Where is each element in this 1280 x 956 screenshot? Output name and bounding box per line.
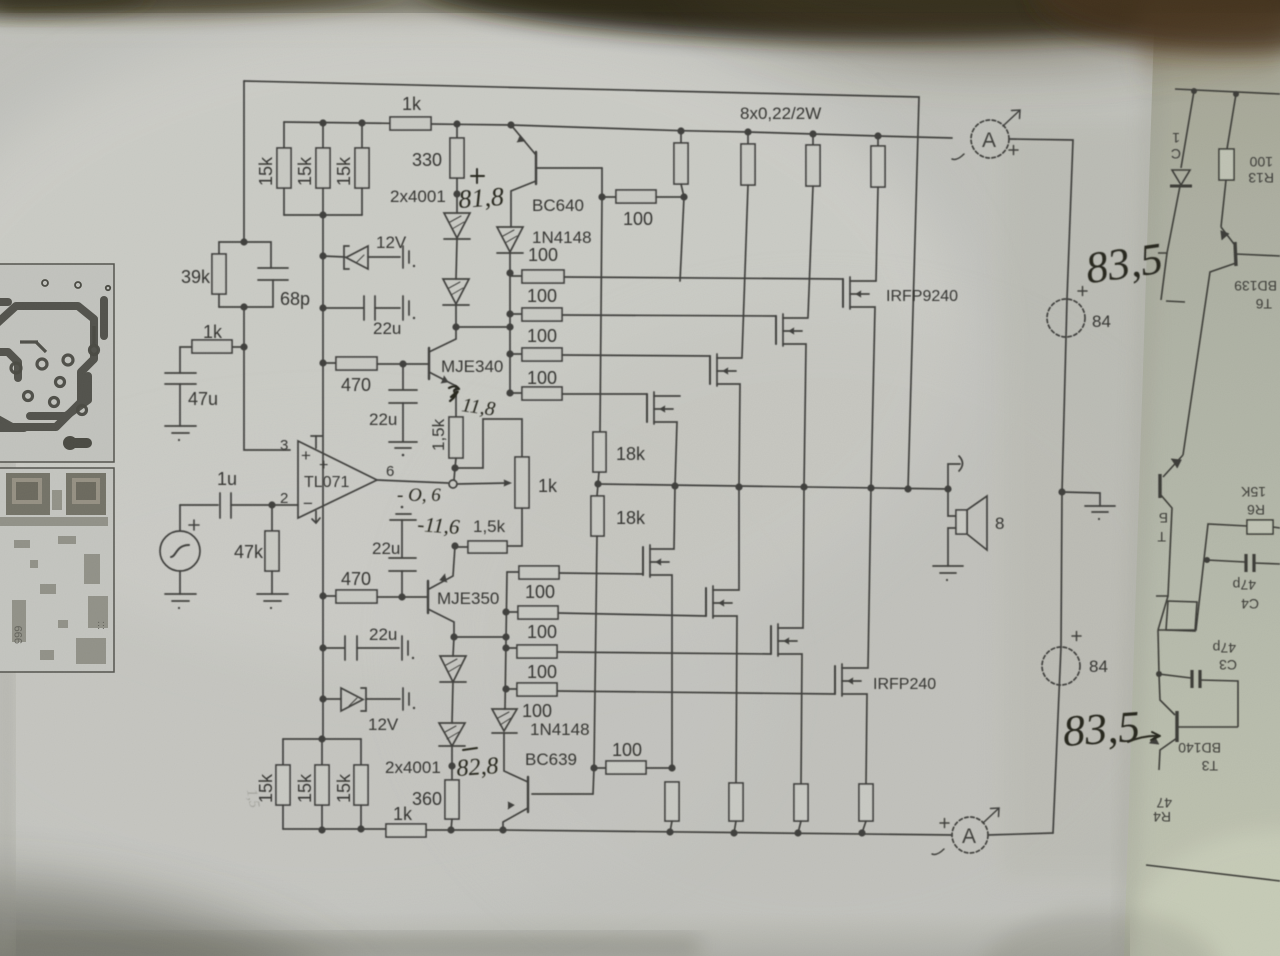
sheet2 label C3 (1212, 640, 1237, 673)
node ladder a2 (506, 310, 513, 317)
resistor 15k b3 (360, 739, 362, 765)
resistor 1.5k v (449, 417, 463, 458)
diode D1b (452, 682, 453, 723)
handwritten 83,5 bottom (1061, 702, 1141, 756)
node rail r2t (744, 128, 751, 135)
ammeter A2 (952, 817, 988, 853)
node ladder a top (506, 269, 513, 276)
scribble MJE340 emitter (449, 386, 459, 401)
diode D2b (451, 746, 453, 766)
resistor 100 b4 (506, 688, 517, 690)
node bus fb (904, 485, 911, 492)
node ladder b2 (502, 633, 509, 640)
ground 47k (257, 593, 288, 595)
wire to pin3 (244, 347, 290, 450)
source 84 top plus (1078, 287, 1087, 296)
node rail r2b (730, 829, 737, 836)
output bus (598, 484, 948, 489)
resistor 0.22 t1 (680, 131, 682, 143)
rail left bias (322, 215, 324, 363)
speaker 8ohm (948, 489, 956, 516)
resistor 15k b1 (282, 739, 284, 765)
resistor 0.22 t4 (877, 136, 879, 146)
resistor 0.22 b2 (729, 783, 743, 821)
sheet2 wire to R6 (1158, 524, 1247, 630)
node 2x4001 top (453, 190, 460, 197)
node MJE350 base (398, 593, 405, 600)
diode 1N4148 a (497, 227, 523, 252)
rail V+ top (284, 122, 952, 138)
node 15k b top (318, 735, 325, 742)
capacitor 22u c chain (401, 506, 404, 509)
rail ladder a (509, 273, 511, 393)
potentiometer 1k (515, 457, 529, 508)
wire pin2 (272, 504, 298, 506)
wire pin6 (377, 480, 448, 483)
terminal cap 12V a (402, 246, 404, 268)
node ladder b1 (502, 608, 509, 615)
capacitor 22u b chain (402, 364, 404, 389)
base wire MJE350 (402, 596, 428, 598)
zener 12V a (323, 256, 345, 257)
resistor 18k 2 (597, 484, 598, 496)
resistor 330 (456, 124, 458, 138)
wire 15k b top bus (283, 738, 361, 740)
node 15k a3 top (358, 119, 365, 126)
ground 47u (165, 425, 196, 427)
node 100b0 right (668, 764, 675, 771)
sheet2 resistor R6 (1247, 520, 1273, 534)
resistor 0.22 b3 (794, 784, 808, 821)
resistor 0.22 t3 (812, 134, 814, 145)
resistor 100 a1 (510, 275, 522, 277)
wire pot bottom (507, 508, 522, 546)
transistor MJE350 (427, 581, 429, 613)
node 22u d (319, 644, 326, 651)
source V1 plus (189, 520, 199, 530)
node rail r1t (677, 127, 684, 134)
node gnd tap (1058, 488, 1065, 495)
node B (451, 542, 458, 549)
node ladder a5 (506, 389, 513, 396)
rail left bias lower (322, 363, 324, 739)
sheet2 bottom line (1146, 865, 1280, 881)
resistor 1k top (390, 117, 431, 130)
node rail r4b (858, 829, 865, 836)
wire gnd tap (1062, 492, 1100, 506)
resistor 360 (451, 766, 453, 780)
rail mid vertical (600, 168, 602, 432)
source 84 top (1047, 299, 1085, 337)
node 12V b (319, 695, 326, 702)
resistor 0.22 t2 (747, 132, 749, 144)
wire 39k-68p bottom (219, 306, 273, 308)
overbar 82,8 (463, 748, 477, 750)
ground speaker (933, 565, 963, 567)
rail V- bottom (503, 830, 952, 835)
wire source-gnd (179, 571, 181, 594)
node bc639 base rail (590, 764, 597, 771)
resistor 15k a2 (322, 123, 324, 148)
emitter arrow MJE350 (440, 574, 447, 582)
ammeter A1 (971, 120, 1009, 158)
resistor 1.5k h (468, 541, 507, 553)
node 100a0 right (680, 193, 687, 200)
resistor 39k (219, 242, 244, 254)
sheet2 node C4 (1204, 557, 1210, 563)
ground V1 (165, 593, 196, 595)
resistor 15k a3 (361, 123, 363, 148)
node bus q3 (735, 483, 742, 490)
node F3 (240, 343, 247, 350)
node bus spk (944, 485, 951, 492)
node bus q4 (671, 482, 678, 489)
zener 12V b (323, 698, 341, 700)
capacitor 68p (244, 242, 271, 268)
mosfet Q4 (647, 392, 680, 486)
wire node A to pot top (455, 419, 522, 468)
node BC640 emitter (507, 121, 514, 128)
mosfet Q2 (776, 314, 808, 487)
node ladder b3 (502, 644, 509, 651)
sheet2 label R4 (1153, 795, 1172, 825)
wiper arrow (457, 483, 508, 484)
resistor 100 a0 (602, 196, 616, 198)
node 100a0 left (598, 193, 605, 200)
resistor 470 a (323, 362, 336, 364)
sheet2 stub wire (1166, 301, 1185, 302)
capacitor 1u (180, 504, 218, 506)
speaker connector hook (948, 464, 960, 489)
capacitor 22u d (323, 647, 344, 649)
resistor 0.22 b4 (859, 784, 873, 821)
resistor 100 a4 (510, 392, 522, 394)
node ladder a4 (506, 350, 513, 357)
resistor 18k 1 (593, 432, 606, 472)
node F1 (240, 238, 247, 245)
node MJE350 coll (450, 633, 457, 640)
second sheet on right (1124, 0, 1280, 956)
node output mid (594, 480, 601, 487)
mosfet Q1 irfp9240 (843, 277, 876, 488)
wire 15k a bottom bus (284, 214, 362, 216)
capacitor 22u a (323, 307, 363, 309)
handwritten 81,8 (457, 182, 504, 214)
terminal cap 12V b (402, 688, 404, 710)
sheet2 label T5 (1157, 510, 1168, 545)
node bus q2 (800, 483, 807, 490)
mosfet Q3 (710, 354, 742, 487)
sheet2 label C1 (1171, 130, 1181, 162)
wire feedback top (244, 81, 919, 489)
handwritten arrow to BD140 (1128, 732, 1160, 742)
node ladder b4 (502, 685, 509, 692)
emitter wire MJE350 (429, 546, 455, 589)
sheet2 label BD139 (1234, 278, 1277, 312)
sheet2 label C4 (1232, 577, 1259, 612)
node ladder a3 (506, 323, 513, 330)
PCB photo 1 (left, upper) (0, 264, 114, 462)
wire feedback left (243, 81, 245, 242)
node MJE340 base (399, 360, 406, 367)
node MJE340 coll (452, 323, 459, 330)
pin7 stub (315, 436, 317, 448)
handwritten -0,6 (397, 485, 441, 506)
node 360 bot (447, 826, 454, 833)
terminal cap 22u d (401, 636, 403, 660)
node 470 b (319, 592, 326, 599)
sheet2 top wire (1175, 89, 1280, 94)
node 15k b2 bot (318, 826, 325, 833)
node rail r3t (809, 130, 816, 137)
node 15k a2 top (319, 119, 326, 126)
resistor 47k (271, 505, 273, 531)
sheet2 resistor R13 (1227, 94, 1236, 149)
terminal cap 22u a (402, 296, 404, 320)
node 2x4001 bot (448, 762, 455, 769)
handwritten plus top (471, 169, 484, 183)
sheet2 label R6 (1240, 484, 1266, 518)
sheet2 transistor BD139 (1221, 227, 1234, 244)
emitter wire MJE340 (455, 386, 457, 417)
sheet2 resistor R5 (1166, 601, 1197, 631)
node bus q1 (867, 484, 874, 491)
node rail r4t (874, 132, 881, 139)
diode D2 (456, 239, 457, 279)
node F2 (240, 303, 247, 310)
handwritten 82,8 (456, 753, 500, 782)
node rail r3b (794, 829, 801, 836)
node IN (268, 501, 275, 508)
A1 plus (1009, 146, 1018, 155)
resistor 15k b2 (321, 739, 323, 765)
diode D1 (456, 194, 458, 213)
bottom shadows (0, 885, 380, 956)
wire D2 to node (455, 305, 457, 327)
node 15k a bus (319, 211, 326, 218)
node 330 top (453, 120, 460, 127)
main schematic (160, 81, 1115, 854)
handwriting (243, 169, 1166, 810)
sheet2 label BD140 (1178, 740, 1221, 774)
resistor 15k a1 (283, 122, 285, 148)
capacitor 47u (165, 372, 196, 374)
resistor 100 b2 (506, 611, 518, 613)
sheet2 capacitor C4 (1207, 560, 1245, 562)
pin4 stub (315, 511, 317, 522)
wire MJE350 coll to diode (453, 637, 454, 656)
mosfet Q8 irfp240 (835, 488, 871, 784)
resistor 1k feedback (232, 346, 244, 348)
source 84 bottom (1042, 647, 1080, 685)
A2 plus (940, 819, 949, 828)
sheet2 diode C1 (1181, 91, 1194, 168)
node BC639 emitter (499, 826, 506, 833)
mosfet Q5 (643, 486, 675, 768)
resistor 100 b0 (594, 767, 606, 769)
sheet2 node C3 (1156, 671, 1162, 677)
rail ladder b (505, 572, 507, 709)
transistor MJE340 (428, 348, 430, 379)
resistor 100 a2 (510, 313, 522, 315)
handwritten -11,6 (417, 512, 461, 539)
node 22u a (319, 304, 326, 311)
ground main (1085, 505, 1115, 507)
node 470 a (319, 359, 326, 366)
source 84 bottom plus (1072, 632, 1081, 641)
wire bc639 base rail (593, 768, 594, 794)
node rail r1b (666, 828, 673, 835)
sheet2 node d1 (1191, 88, 1197, 94)
sheet2 transistor T5 (1163, 455, 1183, 477)
transistor BC639 (504, 733, 528, 782)
transistor BC640 (511, 125, 536, 155)
op-amp TL071 (298, 441, 377, 518)
wiper circle (454, 468, 455, 480)
faint pencil 1,5 (243, 788, 262, 810)
sheet2 transistor BD140 (1159, 674, 1175, 715)
wire to 1k node (243, 307, 245, 347)
top dark photo band (0, 0, 1280, 36)
sheet2 label 100 R13 (1248, 154, 1274, 186)
node A (451, 464, 458, 471)
sheet 2 schematic (1146, 88, 1280, 881)
handwritten 83,5 top (1083, 234, 1166, 293)
printed labels (181, 94, 1111, 824)
wire to source 84 bottom (1061, 492, 1062, 647)
node 15k b3 bot (357, 825, 364, 832)
handwritten 11,8 (460, 394, 496, 420)
resistor 0.22 b1 (665, 782, 679, 821)
resistor 100 a3 (510, 353, 522, 355)
resistor 100 b1 (507, 571, 519, 573)
source V1 (179, 505, 181, 531)
rail V- bottom left (283, 828, 386, 830)
wire A1 right (1009, 139, 1073, 299)
diode 1N4148 b (504, 708, 505, 710)
mosfet Q6 (706, 487, 739, 783)
wire node to ladder (456, 326, 510, 328)
PCB photo 2 (left, lower) (0, 468, 114, 672)
wire coll node to ladder b (454, 636, 506, 638)
node 12V a (319, 252, 326, 259)
resistor 100 b3 (506, 647, 517, 649)
sheet2 node d2 (1233, 91, 1239, 97)
mosfet Q7 (771, 487, 804, 784)
resistor 1k bottom (386, 824, 426, 837)
sheet2 capacitor C3 (1158, 630, 1191, 678)
wire A2 right (988, 833, 1053, 835)
resistor 470 b (323, 595, 336, 597)
